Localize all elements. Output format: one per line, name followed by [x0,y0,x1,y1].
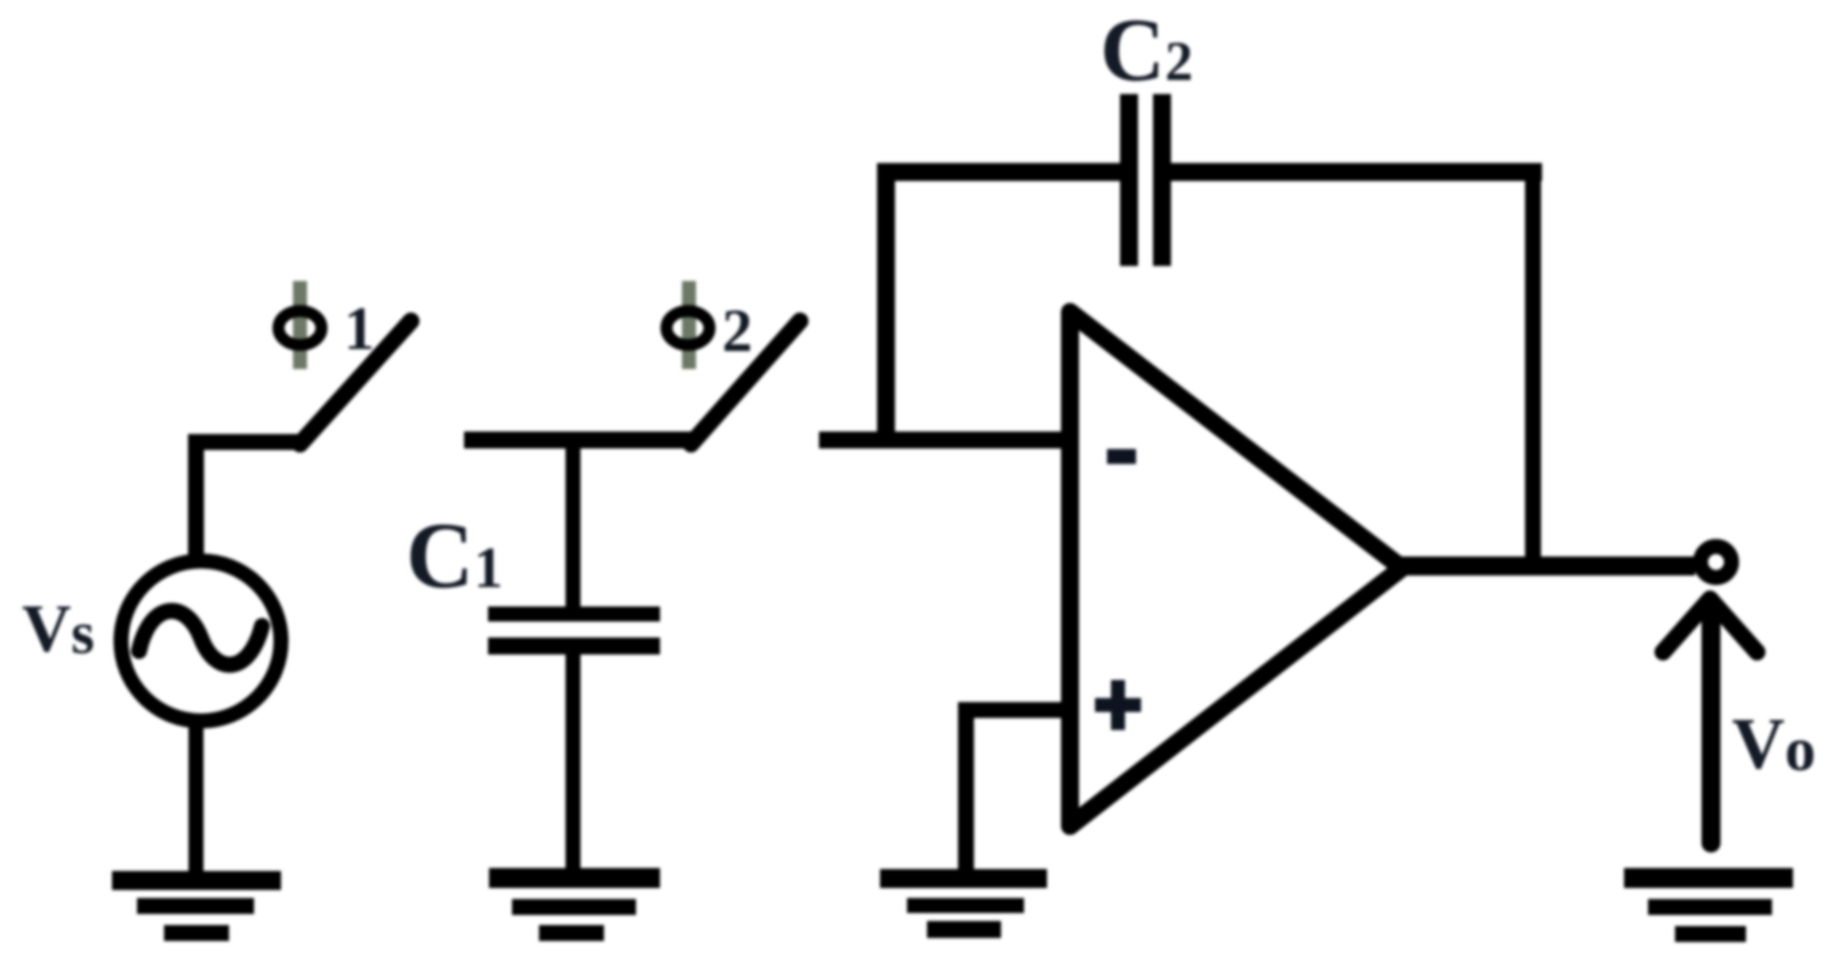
svg-text:Vo: Vo [1732,703,1816,784]
ground under Vo [1624,868,1793,942]
op-amp non-inverting input marker + [1095,680,1141,730]
voltage source Vs [121,561,281,721]
wire node A horizontal (phi1 to phi2) [464,432,691,449]
wire from Vs to phi1 switch [196,442,300,556]
ground under non-inverting input [880,869,1047,938]
op-amp inverting input marker - [1107,449,1136,464]
label phi1 [279,281,375,369]
arrow Vo shaft [1702,604,1721,843]
wire feedback top left segment [877,163,1122,181]
svg-text:C2: C2 [1100,1,1193,100]
wire from Vs to ground [189,721,204,874]
svg-text:2: 2 [722,298,753,365]
ground under Vs [112,871,281,941]
wire C1 top lead [566,440,581,610]
svg-text:Vs: Vs [22,590,94,666]
svg-text:1: 1 [344,296,375,363]
capacitor C1 [488,614,660,646]
wire op-amp inverting input [819,432,1072,449]
wire C1 bottom lead [566,654,581,874]
wire op-amp output [1398,557,1695,576]
wire right feedback vertical [1525,172,1541,566]
switch phi2 blade [691,321,800,444]
wire feedback top right segment [1169,163,1542,181]
wire left feedback vertical [877,172,895,440]
ground under C1 [489,868,660,941]
label phi2 [667,281,753,369]
op-amp U1 [1070,312,1402,826]
switch phi1 blade [300,321,411,444]
arrow Vo head [1663,599,1757,652]
capacitor C2 [1129,94,1162,266]
wire op-amp non-inverting input step [966,710,1072,870]
svg-text:C1: C1 [406,504,503,608]
node Vo terminal [1701,547,1732,578]
